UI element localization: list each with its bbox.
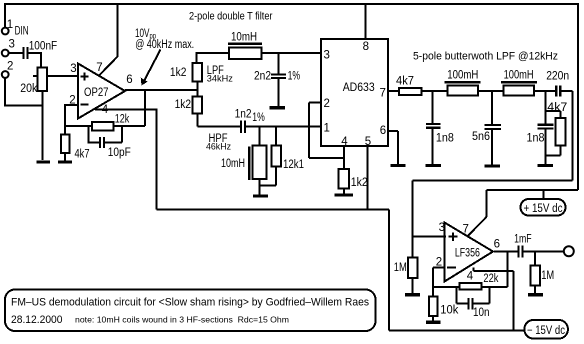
inductor L3 100mH [444, 81, 480, 96]
resistor R11 22k [460, 283, 482, 290]
wire: L1 to AD633 pin3 [262, 52, 322, 54]
svg-text:3: 3 [9, 39, 15, 51]
wire: OP27 pin2 to feedback node [65, 105, 78, 134]
inductor L2 10mH (vertical) [248, 127, 267, 180]
wire: -V distribution (OP27 pin4 to bottom rail) [156, 210, 524, 331]
wire: feedback to 22k [433, 286, 460, 288]
svg-text:100nF: 100nF [29, 41, 58, 53]
svg-text:10mH: 10mH [221, 158, 245, 170]
wire: lower 1k2 to HPF wire [196, 114, 198, 127]
svg-text:1: 1 [324, 122, 330, 134]
svg-text:1n2: 1n2 [235, 109, 252, 121]
wire: R12k to output [114, 90, 146, 126]
wire: +15V diagonal to LF356 pin7 [468, 217, 487, 236]
resistor R13 1M (output) [530, 252, 539, 294]
svg-text:3: 3 [324, 49, 330, 61]
svg-text:12k1: 12k1 [283, 159, 304, 171]
svg-text:4k7: 4k7 [396, 75, 414, 87]
svg-text:@ 40kHz max.: @ 40kHz max. [135, 39, 194, 51]
ground (20k) [36, 160, 50, 163]
inductor L1 10mH (horizontal) [228, 43, 262, 59]
connector J1 pin 3 [2, 50, 9, 57]
wire: LF356 output to C10 [494, 251, 517, 253]
svg-text:1k2: 1k2 [170, 67, 187, 79]
svg-text:10mH: 10mH [231, 31, 257, 43]
svg-text:28.12.2000: 28.12.2000 [11, 314, 63, 326]
connector J1 pin 1 (DIN) [2, 28, 9, 35]
svg-text:12k: 12k [115, 114, 130, 126]
capacitor C6 5n6 [485, 91, 501, 164]
svg-text:− 15V dc: − 15V dc [527, 325, 565, 337]
label LPF 34kHz [207, 65, 234, 84]
label HPF 46kHz [206, 133, 231, 152]
wire: C1 to 20k top [29, 53, 41, 68]
svg-text:10k: 10k [440, 304, 458, 316]
svg-text:LF356: LF356 [455, 247, 480, 259]
capacitor C1 100nF [22, 47, 28, 59]
ground (AD633 pin6) [391, 164, 406, 167]
svg-text:1n8: 1n8 [436, 132, 454, 144]
resistor R10 1M (input) [408, 237, 417, 294]
wire: top +V rail [5, 3, 578, 5]
potentiometer R1 20k [33, 68, 47, 92]
wire: +15V stub to supply oval [543, 190, 545, 199]
svg-text:4k7: 4k7 [547, 102, 567, 114]
svg-text:20k: 20k [20, 83, 37, 95]
wire: OP27 output to T-filter node [125, 89, 197, 91]
wire: L3 to L4 [478, 90, 503, 92]
ground (R10) [405, 293, 420, 296]
supply +15V dc [521, 199, 566, 216]
svg-text:4: 4 [467, 271, 474, 283]
svg-text:100mH: 100mH [504, 70, 534, 82]
capacitor C8 1n8 (shunt) [538, 91, 554, 164]
svg-text:1: 1 [7, 19, 13, 31]
svg-text:3: 3 [70, 63, 76, 75]
wire: between 1k2s (output junction) [196, 82, 198, 97]
wire: L4 to C7 [534, 90, 555, 92]
wire: LPF output (220n) down and to LF356 +in [413, 91, 573, 237]
ground (10k) [426, 321, 441, 324]
svg-text:6: 6 [380, 125, 386, 137]
wire: 20k wiper to OP27 +in [47, 75, 78, 77]
ground (2n2) [269, 106, 285, 109]
svg-text:FM–US demodulation circuit for: FM–US demodulation circuit for <Slow sha… [11, 296, 369, 308]
wire: OP27 pin7 to top rail [99, 3, 118, 76]
svg-text:1k2: 1k2 [351, 177, 368, 189]
capacitor C7 220n [555, 85, 561, 96]
wire: 20k bottom to ground [42, 91, 44, 160]
caption box [5, 290, 376, 332]
inductor L4 100mH [501, 81, 537, 96]
wire: 4k7 to L3 [422, 90, 448, 92]
capacitor C5 1n8 [426, 91, 441, 164]
capacitor C2 10pF (parallel loop) [89, 126, 123, 148]
ground (C5) [426, 164, 442, 167]
svg-text:10n: 10n [473, 307, 490, 319]
resistor R4 1k2 (upper) [192, 63, 202, 82]
resistor R7 4k7 [399, 88, 422, 95]
svg-text:34kHz: 34kHz [207, 74, 234, 84]
wire: AD633 pin7 to 4k7 [388, 90, 399, 92]
ground (5n6) [484, 164, 500, 167]
ground (C8/4k7) [538, 164, 554, 167]
wire: AD633 pin8 to top rail [365, 3, 367, 39]
annotation 10Vpp @40kHz max [135, 28, 194, 51]
svg-text:1k2: 1k2 [175, 99, 192, 111]
svg-text:AD633: AD633 [343, 82, 375, 94]
svg-text:3: 3 [439, 222, 445, 234]
svg-text:4k7: 4k7 [75, 149, 90, 161]
node: T-filter mid node / wires [197, 53, 229, 63]
IC U2 AD633 [321, 39, 388, 146]
wire: LF356 pin4 to -15V rail [474, 268, 514, 331]
ground (4k7) [58, 161, 72, 164]
resistor R8 4k7 (shunt) [546, 111, 566, 155]
svg-text:+ 15V dc: + 15V dc [524, 203, 563, 215]
svg-text:1mF: 1mF [514, 233, 532, 245]
wire: LF356 pin2 to feedback [433, 268, 445, 287]
svg-text:1M: 1M [541, 270, 554, 282]
svg-text:22k: 22k [483, 273, 498, 285]
wire: AD633 pin6 to ground [388, 131, 398, 164]
wire: 22k to output [482, 252, 508, 287]
svg-text:5-pole butterwoth LPF @12kHz: 5-pole butterwoth LPF @12kHz [413, 50, 558, 62]
connector J1 pin 2 [2, 71, 9, 78]
resistor R9 1k2 (AD633 pin4) [339, 146, 350, 193]
svg-text:7: 7 [380, 87, 386, 99]
svg-text:5n6: 5n6 [472, 131, 490, 143]
resistor R5 1k2 (lower) [192, 96, 202, 113]
wire: HPF node to C4 [197, 126, 240, 128]
wire: L2 and 12k1 bottoms to ground [260, 167, 277, 195]
output terminal circle [564, 246, 574, 256]
supply -15V dc [524, 320, 568, 339]
svg-text:1%: 1% [288, 71, 301, 83]
wire: C4 to AD633 pin1 [246, 126, 321, 128]
resistor R12 10k [429, 287, 438, 321]
resistor R6 12k1 [271, 127, 281, 167]
wire: OP27 pin4 to -V rail [95, 110, 156, 210]
svg-text:2: 2 [7, 61, 13, 73]
ground (L2/12k1) [253, 195, 268, 198]
op-amp U3 LF356 [445, 223, 494, 282]
svg-text:6: 6 [494, 238, 500, 250]
wire: C10 to output terminal [524, 251, 564, 253]
capacitor C10 1mF [517, 246, 523, 258]
svg-text:note: 10mH coils wound in 3 HF: note: 10mH coils wound in 3 HF-sections … [75, 314, 289, 324]
svg-text:7: 7 [463, 224, 469, 236]
op-amp U1 OP27 [78, 64, 125, 119]
svg-text:10pF: 10pF [108, 147, 131, 159]
svg-text:1%: 1% [252, 112, 264, 124]
ground (R9) [334, 193, 353, 196]
svg-text:220n: 220n [546, 70, 569, 82]
svg-text:OP27: OP27 [84, 87, 109, 99]
annotation arrow to output wire [141, 50, 161, 86]
capacitor C4 1n2 [240, 120, 246, 133]
svg-text:46kHz: 46kHz [206, 142, 231, 152]
capacitor C3 2n2 [271, 53, 286, 106]
wire: +15V rail right side down [487, 3, 578, 217]
svg-text:8: 8 [363, 41, 369, 53]
svg-text:100mH: 100mH [447, 70, 478, 82]
svg-text:6: 6 [126, 74, 132, 86]
wire: DIN pin2 down and right to 20k bottom [5, 78, 42, 106]
wire: rail drop to DIN pin 1 [4, 3, 6, 28]
svg-text:DIN: DIN [15, 26, 29, 38]
ground (R13) [528, 293, 543, 296]
svg-text:1n8: 1n8 [527, 132, 545, 144]
capacitor C9 10n (parallel loop) [456, 287, 489, 310]
svg-text:2-pole double T filter: 2-pole double T filter [189, 10, 273, 22]
wire: riser joining AD633 pins 1 and 2 [309, 103, 344, 159]
wire: AD633 pin5 to -V wire [366, 146, 368, 210]
svg-text:2: 2 [324, 98, 330, 110]
wire: pin3 to C1 [9, 52, 23, 54]
wire: C7 to corner [561, 90, 572, 92]
wire: feedback node to R12k [65, 125, 92, 127]
resistor R2 12k [92, 122, 114, 131]
svg-text:2n2: 2n2 [254, 71, 271, 83]
svg-text:1M: 1M [394, 262, 407, 274]
resistor R3 4k7 [61, 134, 70, 160]
